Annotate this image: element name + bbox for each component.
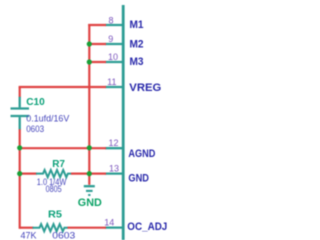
op-amp/IC body edge U? [122,5,125,240]
pin 9 stub [105,43,123,45]
capacitor C10 symbol [11,97,30,130]
svg-text:M3: M3 [130,56,144,68]
junction dot bus/GND row [87,171,92,176]
pin 11 stub [105,86,123,88]
svg-text:VREG: VREG [129,82,161,94]
svg-text:OC_ADJ: OC_ADJ [127,221,167,233]
pin 12 stub [105,147,123,149]
wire: GND symbol drop [88,174,90,185]
resistor R5 symbol [33,224,69,231]
svg-text:GND: GND [128,173,149,185]
wire: R5 left lead from corner [20,227,34,229]
svg-text:0603: 0603 [26,124,44,134]
svg-text:8: 8 [108,15,113,25]
wire: R7 left lead [20,173,37,175]
svg-text:10: 10 [108,52,118,62]
junction dot left/R7 [17,171,22,176]
wire: R7 right lead to bus/pin13 [71,173,106,175]
svg-text:C10: C10 [26,96,45,108]
junction dot bus/AGND [87,145,92,150]
wire: pin10 horizontal [89,61,106,63]
junction dot left/AGND [17,145,22,150]
pin 14 stub [105,226,123,228]
junction dot bus/pin9 [87,41,92,46]
svg-text:47K: 47K [21,230,37,240]
pin 13 stub [105,172,123,174]
svg-text:11: 11 [107,77,116,87]
wire: R5 right lead to pin 14 [68,227,107,229]
wire: VREG horizontal to pin 11 [19,86,106,88]
svg-text:GND: GND [78,197,102,209]
wire: left vertical lower segment C10 to R5 corner [19,129,21,228]
svg-text:13: 13 [109,164,119,174]
junction dot bus/pin10 [87,59,92,64]
svg-text:12: 12 [108,138,118,148]
svg-text:M1: M1 [130,19,144,31]
resistor R7 symbol [36,170,72,177]
svg-text:14: 14 [104,218,114,228]
pin 10 stub [105,61,123,63]
wire: left vertical upper segment into C10 [19,87,21,98]
svg-text:AGND: AGND [128,148,155,160]
wire: AGND horizontal to pin 12 [20,147,106,149]
svg-text:R5: R5 [48,208,62,220]
wire: pin8 horizontal [88,24,106,26]
svg-text:9: 9 [108,34,113,44]
svg-text:0.1ufd/16V: 0.1ufd/16V [26,114,69,124]
wire: pin9 horizontal [89,43,106,45]
svg-text:0805: 0805 [46,184,62,194]
pin 8 stub [105,24,123,26]
ground symbol [84,186,95,195]
wire: vertical bus x=89 from pin8 row to pin13 row [88,24,90,174]
svg-text:0603: 0603 [52,230,75,240]
svg-text:M2: M2 [130,38,144,50]
svg-text:R7: R7 [52,158,65,170]
